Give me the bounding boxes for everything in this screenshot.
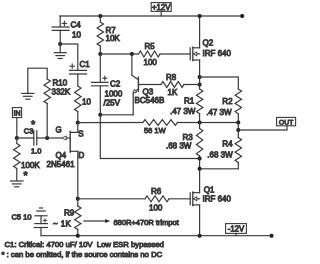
ground R10: [22, 93, 34, 99]
svg-text:.68 3W: .68 3W: [166, 142, 192, 151]
resistor R6: [145, 187, 169, 213]
node Q3 collector branch: [130, 52, 134, 56]
svg-text:IN: IN: [14, 110, 21, 117]
wire R9 node to R6: [78, 198, 145, 200]
resistor R5: [139, 42, 161, 67]
svg-text:R6: R6: [151, 187, 162, 196]
transistor Q1 IRF640: [190, 192, 199, 206]
capacitor C5: [12, 212, 48, 235]
node +12V rail right terminal: [240, 14, 244, 18]
svg-text:.47 3W: .47 3W: [206, 108, 232, 117]
svg-text:56 1W: 56 1W: [144, 126, 167, 135]
node gate junction: [45, 136, 49, 140]
node Q2 source R8 junction: [198, 83, 202, 87]
svg-text:R2: R2: [222, 97, 233, 106]
wire Q1 source to rail: [199, 205, 201, 236]
wire input node to C3: [17, 137, 34, 139]
svg-text:*: *: [31, 119, 36, 131]
wire C4 top lead: [59, 16, 61, 27]
wire R3 node down: [199, 159, 201, 193]
svg-text:G: G: [56, 126, 62, 135]
wire R2 bottom to out tap: [237, 123, 239, 138]
resistor R4: [207, 138, 241, 169]
svg-text:*: *: [23, 170, 28, 182]
node C2 bottom junction: [98, 113, 102, 117]
power label +12V: [151, 3, 171, 16]
svg-text:1000: 1000: [105, 90, 123, 99]
node OUT tap: [236, 128, 240, 132]
node input junction: [15, 136, 19, 140]
capacitor C3: [24, 119, 42, 156]
wire C4 junction to C1 column: [60, 44, 78, 70]
svg-text:.47 3W: .47 3W: [170, 107, 196, 116]
svg-text:2N5461: 2N5461: [47, 160, 76, 169]
svg-text:C1: Critical: 4700 uF/ 10V Lo: C1: Critical: 4700 uF/ 10V Low ESR bypas…: [5, 240, 164, 249]
svg-text:R9: R9: [64, 208, 75, 217]
resistor R10: [44, 79, 71, 138]
resistor R2: [206, 89, 241, 123]
node R3 bottom junction: [198, 157, 202, 161]
svg-text:1K: 1K: [168, 88, 178, 97]
svg-text:~ 1K: ~ 1K: [53, 219, 72, 228]
svg-text:R8: R8: [166, 73, 177, 82]
capacitor C4: [52, 21, 81, 40]
svg-text:/25V: /25V: [104, 99, 121, 108]
ground 100K: [11, 181, 23, 187]
transistor Q4 2N5461: [47, 123, 85, 170]
wire R8 to Q2 source node: [184, 84, 200, 86]
wire Q3 emitter to C2 node: [100, 114, 133, 116]
svg-text:332K: 332K: [52, 88, 71, 97]
svg-text:-12V: -12V: [228, 225, 245, 234]
node Q1 drain junction: [198, 167, 202, 171]
svg-text:R10: R10: [53, 79, 68, 88]
caption line 1: [5, 240, 164, 249]
capacitor C2: [92, 54, 123, 115]
wire C3 to gate node: [37, 137, 47, 139]
wire R4 bottom to Q1 drain node: [200, 168, 239, 170]
node R7 bottom junction: [98, 52, 102, 56]
annotation trimpot arrow: [84, 218, 180, 227]
resistor 10 (C1 series): [75, 86, 92, 112]
svg-text:R1: R1: [184, 96, 195, 105]
wire R5 to Q2 gate: [160, 53, 190, 55]
svg-text:100: 100: [149, 203, 163, 212]
svg-text:IRF 640: IRF 640: [203, 49, 232, 58]
resistor 100K: [14, 138, 41, 182]
wire 10-ohm to S node: [77, 112, 79, 123]
svg-text:10: 10: [72, 31, 81, 40]
node R9 bottom junction: [76, 234, 80, 238]
node R1 bottom junction: [198, 121, 202, 125]
svg-text:BC546B: BC546B: [135, 96, 165, 105]
svg-text:10: 10: [82, 98, 91, 107]
wire C4 bottom lead: [59, 30, 61, 44]
wire Q2 source down: [199, 60, 201, 89]
svg-text:S: S: [78, 130, 83, 139]
transistor Q2 IRF640: [190, 47, 199, 61]
input label IN: [12, 108, 21, 138]
svg-text:Q4: Q4: [56, 151, 67, 160]
svg-text:IRF 640: IRF 640: [203, 194, 232, 203]
svg-text:Q1: Q1: [204, 185, 215, 194]
wire Q2 drain to rail: [199, 16, 201, 48]
node -12V rail right terminal: [270, 234, 274, 238]
wire 56 resistor to R1 bottom: [178, 122, 200, 124]
wire S node to 56 resistor: [78, 122, 143, 124]
resistor R1: [170, 89, 203, 123]
node Q2 source R2 branch: [198, 75, 202, 79]
wire R7 junction to R5: [100, 53, 138, 55]
wire R10 ground link: [28, 68, 47, 93]
node S junction: [76, 121, 80, 125]
svg-text:C2: C2: [110, 80, 121, 89]
wire Q3 base to R8: [138, 84, 161, 86]
svg-text:C1: C1: [80, 60, 91, 69]
wire R1 bottom to R2 bottom: [200, 122, 239, 124]
resistor 56 1W: [143, 120, 178, 135]
node R9 top junction: [76, 197, 80, 201]
wire OUT tap to OUT box: [238, 126, 287, 130]
svg-text:10K: 10K: [106, 34, 121, 43]
wire R6 to Q1 gate: [169, 198, 190, 200]
wire Q4 drain down to R9: [77, 151, 79, 199]
output label OUT: [277, 117, 296, 126]
wire -12V rail: [41, 235, 272, 237]
svg-text:Q3: Q3: [143, 87, 154, 96]
svg-text:.68 3W: .68 3W: [207, 150, 233, 159]
wire R2 branch top: [200, 77, 239, 89]
wire C2 node down and right to R3 bottom: [100, 115, 199, 159]
resistor R8: [161, 73, 184, 97]
node C4 bottom junction: [58, 42, 62, 46]
svg-text:680R+470R trimpot: 680R+470R trimpot: [114, 218, 180, 227]
svg-text:C4: C4: [71, 21, 82, 30]
node R2 bottom junction: [236, 121, 240, 125]
ground C4: [54, 44, 66, 59]
wire C1 bottom lead: [77, 74, 79, 86]
caption line 2: [2, 250, 163, 259]
svg-text:100K: 100K: [21, 161, 40, 170]
svg-text:C5 10: C5 10: [12, 212, 32, 221]
node R7 top: [98, 14, 102, 18]
resistor R3: [166, 123, 203, 159]
transistor Q3 BC546B: [132, 54, 164, 115]
svg-text:Q2: Q2: [203, 38, 214, 47]
svg-text:R4: R4: [222, 139, 233, 148]
resistor R7: [97, 16, 120, 54]
wire +12V rail: [60, 15, 242, 17]
svg-text:OUT: OUT: [279, 119, 293, 126]
svg-text:D: D: [79, 151, 85, 160]
svg-text:R5: R5: [145, 42, 156, 51]
power label -12V: [226, 224, 247, 236]
svg-text:100: 100: [144, 58, 158, 67]
resistor R9: [53, 199, 81, 236]
ground C5 inverted: [35, 208, 47, 216]
svg-text:1.0: 1.0: [31, 147, 41, 156]
node Q1 source rail junction: [198, 234, 202, 238]
capacitor C1: [70, 60, 91, 74]
node Q2 drain rail junction: [198, 14, 202, 18]
svg-text:* : can be omitted, if the sou: * : can be omitted, if the source contai…: [2, 250, 163, 259]
